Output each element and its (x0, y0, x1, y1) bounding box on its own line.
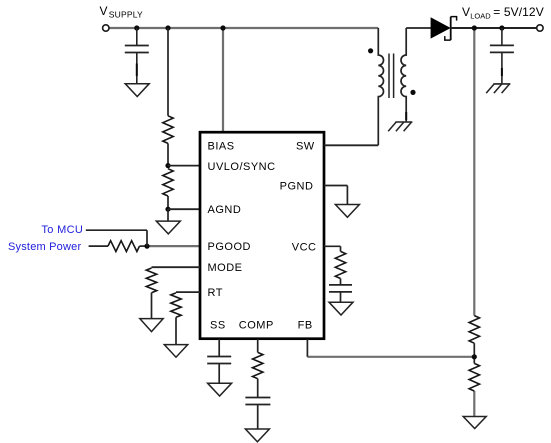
svg-text:PGND: PGND (280, 181, 314, 193)
svg-text:VCC: VCC (292, 241, 317, 253)
svg-text:= 5V/12V: = 5V/12V (493, 5, 544, 19)
svg-text:AGND: AGND (208, 204, 242, 216)
svg-text:MODE: MODE (208, 262, 243, 274)
svg-text:COMP: COMP (239, 320, 274, 332)
svg-text:System Power: System Power (8, 241, 81, 253)
svg-text:BIAS: BIAS (208, 140, 235, 152)
svg-text:SW: SW (296, 140, 315, 152)
svg-text:PGOOD: PGOOD (208, 241, 251, 253)
svg-text:SS: SS (210, 320, 226, 332)
svg-text:V: V (100, 4, 109, 18)
svg-text:LOAD: LOAD (470, 12, 491, 21)
svg-text:To MCU: To MCU (41, 224, 83, 236)
svg-text:FB: FB (298, 320, 313, 332)
svg-text:UVLO/SYNC: UVLO/SYNC (208, 161, 276, 173)
svg-text:SUPPLY: SUPPLY (109, 10, 143, 20)
svg-text:RT: RT (208, 287, 223, 299)
